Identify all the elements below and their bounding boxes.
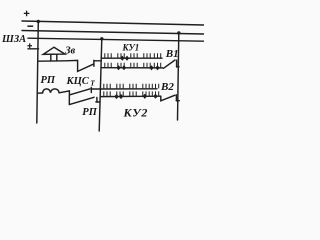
svg-text:Т: Т: [90, 79, 95, 88]
svg-text:КЦС: КЦС: [66, 76, 90, 87]
svg-text:Зв: Зв: [64, 45, 75, 56]
svg-text:В2: В2: [160, 81, 174, 93]
svg-text:КУ2: КУ2: [123, 105, 149, 119]
svg-text:ШЗА: ШЗА: [1, 34, 26, 45]
svg-text:РП: РП: [82, 107, 97, 118]
svg-text:РП: РП: [41, 75, 56, 86]
svg-text:КУ1: КУ1: [122, 42, 140, 52]
svg-text:В1: В1: [165, 48, 179, 60]
